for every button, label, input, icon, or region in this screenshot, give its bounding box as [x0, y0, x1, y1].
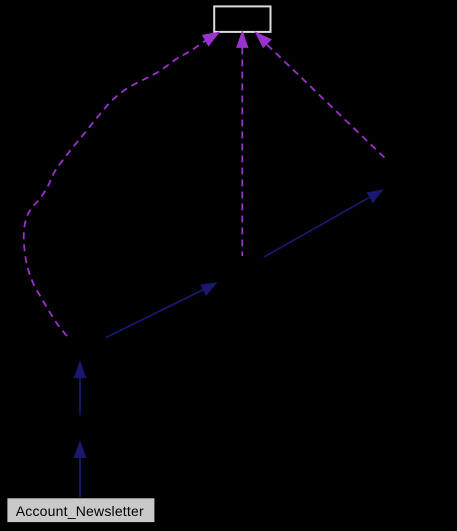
wire usage-edge right (node D to top-box): [267, 45, 388, 161]
wire usage-edge left curve (node B to top-box): [24, 41, 206, 337]
wire inheritance edge node C to node D: [264, 198, 369, 257]
node Account_Newsletter: [7, 498, 154, 522]
wire inheritance edge node A to node B: [79, 377, 81, 415]
node top-box: [214, 6, 270, 32]
wire inheritance edge node B to node C: [106, 290, 203, 338]
svg-text:Account_Newsletter: Account_Newsletter: [16, 503, 144, 519]
arrowhead usage-edge right: [256, 32, 271, 47]
arrowhead inheritance B: [74, 362, 85, 378]
arrowhead inheritance D: [367, 190, 382, 203]
wire inheritance edge Account_Newsletter to node A: [79, 456, 81, 497]
wire usage-edge middle (node C to top-box): [241, 48, 243, 257]
arrowhead usage-edge middle: [237, 32, 248, 48]
arrowhead inheritance C: [201, 283, 216, 295]
arrowhead usage-edge left: [203, 32, 219, 45]
arrowhead inheritance A: [74, 442, 85, 458]
